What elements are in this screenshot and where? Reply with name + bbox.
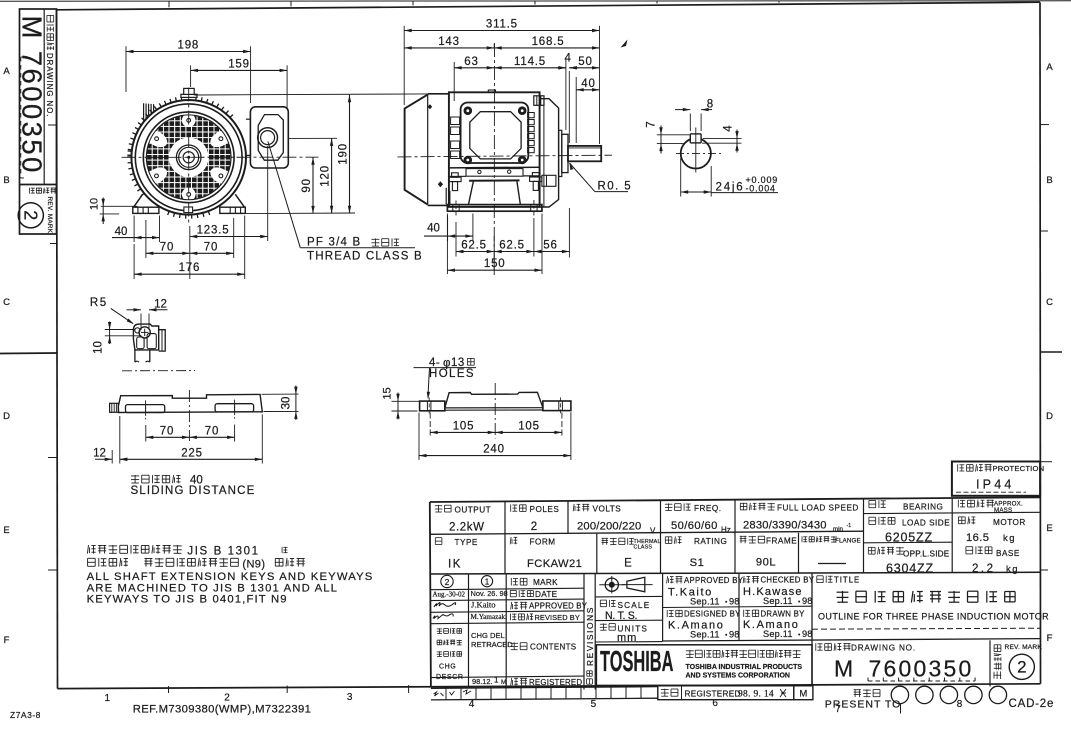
side view: plate bolts: [464, 106, 473, 115]
side view: foot trapezoid: [469, 179, 519, 181]
rail bottom view: left tab: [420, 401, 445, 411]
svg-text:159: 159: [228, 58, 250, 70]
svg-text:V: V: [650, 527, 656, 536]
front view: left foot: [134, 194, 143, 207]
dim 240: [419, 455, 571, 457]
rail section: lower channel: [134, 350, 136, 362]
dim 70 70 rail: [146, 436, 190, 438]
note jp line 1: [87, 545, 88, 554]
dim 62.5 62.5 56 extension lines: [455, 222, 457, 257]
rail side view: right clamp plate: [215, 404, 254, 412]
svg-text:56: 56: [543, 240, 557, 252]
svg-text:BEARING: BEARING: [903, 503, 943, 512]
scale cell: [595, 619, 662, 621]
side view: top eyebolt boss: [488, 90, 495, 92]
svg-text:2830/3390/3430: 2830/3390/3430: [743, 520, 827, 532]
side view: end bracket: [539, 92, 541, 207]
dim 150: [447, 269, 542, 271]
dim 12 extension lines: [140, 314, 142, 331]
svg-text:-0.004: -0.004: [746, 183, 776, 193]
front view: terminal box body: [250, 107, 288, 168]
svg-text:CHG DEL: CHG DEL: [471, 631, 505, 640]
svg-text:ARE MACHINED TO JIS B 1301 AND: ARE MACHINED TO JIS B 1301 AND ALL: [87, 582, 339, 594]
svg-text:FORM: FORM: [530, 538, 556, 547]
leader R0.5: [570, 163, 574, 170]
dim 30: [295, 386, 297, 421]
projection symbol: [605, 578, 618, 591]
svg-text:3: 3: [347, 692, 353, 703]
note jp line 2: [88, 557, 96, 559]
svg-text:311.5: 311.5: [486, 19, 518, 31]
dim 70 right: [190, 252, 234, 254]
dim 176: [134, 273, 245, 275]
svg-text:176: 176: [179, 262, 201, 274]
dim 159: [191, 69, 288, 71]
svg-text:C: C: [1046, 297, 1053, 308]
dim 120 extension line: [289, 137, 338, 139]
svg-text:E: E: [624, 558, 632, 570]
label sliding distance 40 (jp): [131, 475, 139, 477]
present-to label jp: [854, 689, 861, 691]
svg-text:REVISED BY: REVISED BY: [535, 613, 580, 622]
dim 62.5 left: [456, 251, 494, 253]
rail side view: left end cap: [110, 403, 119, 412]
table row line under headers (bearing/mass): [864, 512, 1041, 513]
svg-text:AND SYSTEMS CORPORATION: AND SYSTEMS CORPORATION: [686, 673, 791, 680]
svg-text:FREQ.: FREQ.: [694, 504, 722, 513]
svg-text:REF.M7309380(WMP),M7322391: REF.M7309380(WMP),M7322391: [133, 704, 312, 716]
svg-text:7: 7: [646, 121, 658, 127]
leader 4-phi13 holes: [428, 368, 430, 398]
svg-text:6304ZZ: 6304ZZ: [886, 562, 934, 576]
svg-text:POLES: POLES: [530, 505, 560, 514]
rail bottom view: centerline: [494, 383, 496, 439]
svg-text:2: 2: [531, 521, 537, 533]
svg-text:R5: R5: [90, 297, 108, 309]
svg-text:90: 90: [301, 178, 313, 192]
cell speed header: [740, 502, 747, 504]
svg-text:RETRACED: RETRACED: [471, 640, 513, 649]
side view: shaft: [568, 146, 601, 161]
svg-text:Sep.11: Sep.11: [690, 630, 720, 640]
rail side view: main profile: [118, 394, 262, 412]
svg-text:98: 98: [729, 630, 740, 640]
svg-text:B: B: [1046, 175, 1052, 186]
svg-text:ALL SHAFT EXTENSION KEYS AND K: ALL SHAFT EXTENSION KEYS AND KEYWAYS: [87, 571, 374, 583]
svg-text:143: 143: [438, 36, 460, 48]
svg-text:1: 1: [485, 578, 490, 587]
cell flange value dash: [818, 563, 846, 565]
revision table row lines: [431, 588, 584, 590]
svg-text:98: 98: [729, 597, 740, 607]
svg-text:12: 12: [93, 448, 106, 460]
svg-text:10: 10: [89, 198, 101, 210]
dim 8 extension lines: [689, 114, 691, 132]
side view: fan cover: [405, 95, 428, 205]
dim 4 extension lines: [703, 138, 742, 140]
protection label jp: [957, 464, 959, 471]
svg-text:kg: kg: [1006, 564, 1019, 575]
svg-text:B: B: [3, 175, 9, 186]
svg-text:CONTENTS: CONTENTS: [530, 643, 576, 652]
svg-text:A: A: [1046, 62, 1053, 73]
svg-text:CHECKED BY: CHECKED BY: [761, 576, 815, 585]
svg-text:5: 5: [591, 699, 597, 710]
dim 50: [569, 67, 599, 69]
zone ticks bottom: [168, 686, 170, 693]
side view: left clamp bolt: [449, 177, 461, 181]
leader PF 3/4 thread: [268, 142, 300, 248]
title cell: [811, 573, 813, 689]
svg-text:62.5: 62.5: [461, 240, 487, 252]
svg-text:120: 120: [320, 165, 332, 187]
drawn by cell: [743, 610, 745, 617]
svg-text:IK: IK: [448, 559, 462, 571]
dim 176 extension lines: [133, 244, 135, 279]
dim 105 left: [430, 431, 495, 433]
dim 15 extension lines: [392, 400, 422, 402]
dim 105 105 extension lines: [429, 413, 431, 438]
front view: fan cover rim circle: [135, 104, 242, 211]
dim 225 extension lines: [119, 416, 121, 464]
rev mark cell: [989, 640, 991, 686]
dim 40 (pad to bolt): [424, 235, 473, 237]
svg-text:SLIDING DISTANCE: SLIDING DISTANCE: [131, 485, 256, 497]
svg-text:70: 70: [205, 425, 219, 437]
svg-text:REVISIONS: REVISIONS: [585, 606, 595, 666]
svg-text:FRAME: FRAME: [766, 537, 797, 546]
svg-text:98. 9. 14: 98. 9. 14: [738, 690, 774, 700]
M box: [794, 686, 813, 700]
side view: rivet marks on cover: [438, 181, 443, 187]
frame border bottom: [58, 684, 1041, 689]
checked by cell: [743, 576, 744, 583]
cell motor mass: [958, 516, 965, 518]
revision contents col1 jp note: [437, 628, 442, 630]
dim 24j6: [681, 191, 712, 193]
svg-text:63: 63: [464, 56, 478, 68]
svg-text:KEYWAYS TO JIS B 0401,FIT N9: KEYWAYS TO JIS B 0401,FIT N9: [87, 594, 288, 606]
svg-text:190: 190: [338, 143, 350, 165]
svg-text:M: M: [799, 689, 807, 700]
svg-text:J.Kaito: J.Kaito: [471, 600, 496, 610]
cell opp load side: [868, 546, 875, 548]
dim 7 (key height): [660, 126, 662, 154]
bottom strip small cells: [431, 698, 658, 700]
dim 190: [349, 95, 351, 214]
drawing-no block divider vertical: [43, 9, 45, 185]
svg-text:R0. 5: R0. 5: [598, 181, 633, 193]
rev mark circled 2: [1009, 654, 1034, 679]
svg-text:DESIGNED BY: DESIGNED BY: [684, 610, 741, 619]
svg-text:150: 150: [484, 258, 506, 270]
dim 63 extension line: [453, 62, 455, 101]
revision label CONTENTS: [510, 642, 518, 644]
svg-text:APPROVED BY: APPROVED BY: [529, 602, 588, 611]
svg-text:70: 70: [204, 241, 218, 253]
revision row3 signatures: [434, 603, 456, 608]
svg-text:HOLES: HOLES: [429, 368, 475, 380]
cell frame header: [740, 535, 747, 537]
svg-text:DESCR: DESCR: [436, 674, 464, 681]
side view: right rib gills: [528, 113, 535, 118]
row line above TOSHIBA / drawing no: [663, 639, 1040, 641]
dim 40 (front foot): [112, 237, 160, 239]
projection line front-to-side top: [194, 94, 428, 95]
svg-text:8: 8: [957, 699, 963, 710]
svg-text:70: 70: [160, 425, 174, 437]
table outer top line: [430, 497, 1040, 502]
rail section: centerline below: [122, 370, 195, 372]
dim 240 extension lines: [418, 413, 420, 461]
svg-text:DRAWING NO.: DRAWING NO.: [851, 644, 916, 653]
svg-text:D: D: [3, 411, 10, 422]
svg-text:98.12.: 98.12.: [472, 677, 493, 686]
svg-text:E: E: [3, 525, 9, 536]
table bearing mid line: [864, 541, 953, 544]
svg-text:RATING: RATING: [694, 537, 727, 546]
rail section: left cavity: [137, 337, 144, 349]
svg-text:(N9): (N9): [242, 558, 265, 570]
dim 30 extension lines: [262, 393, 299, 395]
svg-text:IP44: IP44: [976, 478, 1015, 492]
dim 63 / 114.5: [454, 67, 494, 69]
front view: right foot: [235, 194, 244, 207]
dim 15: [397, 393, 399, 420]
svg-text:APPROVED BY: APPROVED BY: [684, 576, 744, 585]
rail section: outer contour: [133, 324, 158, 350]
sheet top edge line: [0, 0, 1071, 2]
zone ticks top: [168, 1, 170, 7]
svg-text:-1: -1: [847, 523, 852, 529]
drawing no cell header: [815, 643, 817, 651]
side view: terminal cover plate: [461, 103, 529, 164]
cell load side: [869, 516, 876, 518]
cell flange header: [801, 536, 803, 542]
side view: shaft centerline: [398, 155, 613, 157]
cell form header: [509, 537, 512, 544]
svg-text:M: M: [501, 679, 506, 686]
cell mass header: [957, 500, 959, 508]
svg-text:1: 1: [105, 693, 111, 704]
dim 120: [331, 138, 333, 213]
svg-text:min: min: [833, 526, 844, 533]
dim 12 (rail end): [95, 458, 112, 460]
svg-text:30: 30: [281, 397, 293, 410]
svg-text:2: 2: [224, 693, 230, 704]
dim 40 extension line (shaft): [575, 77, 577, 143]
dim 198: [126, 51, 251, 53]
dim 10 extension lines: [105, 329, 136, 331]
svg-text:2: 2: [21, 210, 41, 220]
rail section: right cavity: [147, 334, 156, 349]
svg-text:4: 4: [564, 53, 571, 65]
svg-text:7600350: 7600350: [869, 656, 974, 682]
dim 40 (shaft length): [576, 89, 599, 91]
cell rating header: [665, 536, 672, 538]
revision label MARK: [510, 578, 512, 586]
front view: fan guard outer circles: [143, 112, 234, 203]
cell base mass: [966, 546, 973, 548]
svg-text:4: 4: [723, 125, 735, 132]
cell bearing header: [869, 500, 876, 502]
svg-text:TOSHIBA: TOSHIBA: [600, 645, 673, 677]
TOSHIBA jp company name: [686, 650, 694, 652]
dim 190 extension bottom: [246, 212, 355, 215]
dim 159 extension line: [286, 65, 288, 108]
svg-text:6205ZZ: 6205ZZ: [885, 531, 933, 545]
front view: hub circles: [176, 145, 201, 170]
front view: cooling fin ticks around frame: [195, 96, 198, 100]
dim 150 extension lines: [446, 214, 448, 275]
side view: vertical centerline: [493, 43, 495, 272]
dim 4: [558, 66, 566, 69]
side view: right clamp bolt: [530, 177, 542, 181]
svg-text:VOLTS: VOLTS: [593, 505, 622, 514]
svg-text:S1: S1: [690, 557, 705, 569]
svg-text:F: F: [1047, 633, 1053, 644]
svg-text:C: C: [3, 297, 10, 308]
revision label DATE: [510, 589, 516, 591]
svg-text:168.5: 168.5: [532, 36, 565, 48]
svg-text:40: 40: [581, 78, 595, 90]
rail side view: centerline: [188, 390, 190, 441]
dim 311.5: [404, 30, 599, 32]
dim 7 extension lines: [657, 134, 690, 136]
stray scan mark: [621, 40, 628, 48]
svg-text:50/60/60: 50/60/60: [671, 520, 718, 532]
dim 40 extension lines: [133, 216, 135, 243]
svg-text:16.5: 16.5: [966, 532, 989, 544]
svg-text:15: 15: [382, 387, 394, 399]
label 'zumen bangou' kanji (rotated): [47, 15, 54, 22]
svg-text:10: 10: [93, 341, 105, 354]
svg-text:D: D: [1046, 411, 1053, 422]
svg-text:2.2kW: 2.2kW: [449, 522, 485, 534]
svg-text:OPP.L.SIDE: OPP.L.SIDE: [903, 550, 950, 559]
svg-text:90L: 90L: [756, 557, 776, 569]
svg-text:PRESENT TO: PRESENT TO: [825, 699, 902, 711]
svg-text:FLANGE: FLANGE: [835, 538, 861, 545]
table column lines upper: [504, 502, 506, 574]
TOSHIBA cell box: [596, 645, 812, 686]
dim 90: [312, 157, 314, 213]
side view: pad bolt centerlines: [455, 201, 457, 216]
dim 105 right: [495, 431, 562, 433]
dim 4 extension lines: [565, 59, 567, 131]
svg-text:DATE: DATE: [535, 590, 558, 599]
side view: bearing boss face: [559, 130, 562, 176]
frame border top: [57, 2, 1041, 10]
side view: cover seam: [448, 92, 450, 207]
svg-text:F: F: [4, 635, 10, 646]
svg-text:50: 50: [578, 56, 592, 68]
rail section: right tab: [159, 330, 166, 351]
svg-text:CAD-2e: CAD-2e: [1009, 698, 1055, 710]
svg-text:105: 105: [518, 420, 540, 432]
title cell dashed line: [812, 628, 1040, 629]
dim 12 rail extension: [111, 450, 113, 464]
svg-text:1: 1: [494, 676, 499, 685]
svg-text:REV. MARK: REV. MARK: [46, 197, 53, 234]
svg-text:123.5: 123.5: [197, 225, 230, 237]
svg-text:OUTPUT: OUTPUT: [455, 506, 492, 515]
svg-text:40: 40: [115, 226, 128, 238]
revision row4 signatures: [433, 614, 453, 619]
cell freq header: [665, 503, 672, 505]
table row2/row3 line: [430, 572, 1040, 574]
svg-text:OUTLINE FOR THREE PHASE INDUCT: OUTLINE FOR THREE PHASE INDUCTION MOTOR: [818, 612, 1049, 622]
present-to circles: [891, 686, 908, 703]
svg-text:TYPE: TYPE: [455, 538, 478, 547]
svg-text:MARK: MARK: [533, 578, 558, 587]
revision table verticals: [468, 574, 470, 687]
svg-text:PROTECTION: PROTECTION: [993, 464, 1045, 473]
registered strip label: [661, 689, 669, 691]
svg-text:70: 70: [160, 241, 174, 253]
svg-text:mm: mm: [617, 632, 637, 644]
svg-text:M: M: [834, 656, 853, 682]
dim 56: [534, 251, 570, 253]
svg-text:BASE: BASE: [996, 549, 1020, 558]
revision label REGISTERED: [511, 678, 512, 686]
units cell: [595, 641, 662, 643]
revision label REVISED BY: [510, 614, 512, 621]
frame border right: [1039, 2, 1042, 684]
svg-text:A: A: [3, 66, 10, 77]
drawing number dashed boxes: [868, 680, 975, 682]
dim 70 left: [146, 252, 190, 254]
svg-text:114.5: 114.5: [514, 56, 546, 68]
dim 62.5 right: [494, 251, 534, 253]
svg-text:REGISTERED: REGISTERED: [685, 690, 741, 699]
svg-text:M 7600350: M 7600350: [16, 16, 47, 175]
dim 143 / 168.5: [493, 44, 495, 49]
revision row1 marks: [441, 575, 453, 587]
side view: slide rail pad (side): [447, 205, 542, 212]
svg-text:105: 105: [453, 420, 475, 432]
dim 10 (rail height): [109, 322, 111, 345]
svg-text:CHG: CHG: [439, 664, 456, 671]
dim 10 extension lines: [101, 205, 138, 207]
svg-text:M.Yamazaki: M.Yamazaki: [471, 613, 508, 621]
svg-text:REV. MARK: REV. MARK: [1005, 644, 1043, 651]
protection IP44 box: [952, 462, 1040, 496]
dim 24j6 extension lines: [680, 158, 682, 197]
svg-text:Sep.11: Sep.11: [690, 597, 720, 607]
zone ticks left margin: [48, 124, 57, 126]
rail section: small hole: [135, 328, 140, 333]
front view: long fins top-left: [143, 103, 145, 128]
svg-text:240: 240: [483, 444, 505, 456]
svg-text:DRAWN BY: DRAWN BY: [761, 609, 806, 618]
svg-text:62.5: 62.5: [499, 240, 525, 252]
svg-text:Hz: Hz: [721, 526, 731, 535]
svg-text:FCKAW21: FCKAW21: [527, 558, 582, 570]
svg-text:8: 8: [707, 99, 713, 111]
IP44 dashed underline: [956, 491, 1026, 493]
dim 225: [120, 458, 262, 460]
shaft end view: keyway: [690, 134, 701, 143]
drawing-no block outline: [20, 9, 57, 234]
svg-text:N. T. S.: N. T. S.: [605, 610, 637, 622]
cell type header: [435, 537, 442, 539]
dim 12 (slot width): [127, 309, 142, 311]
svg-text:4: 4: [469, 699, 475, 710]
svg-text:TOSHIBA INDUSTRIAL PRODUCTS: TOSHIBA INDUSTRIAL PRODUCTS: [686, 664, 803, 671]
side view: terminal plate inner octagon: [470, 112, 521, 159]
front view: drain boss bottom: [184, 207, 193, 213]
